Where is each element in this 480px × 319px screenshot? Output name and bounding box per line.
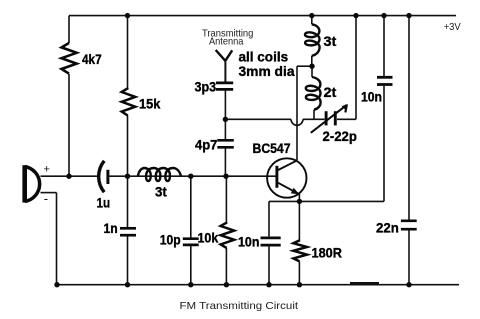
capacitor C5 4p7: [217, 140, 234, 147]
svg-text:180R: 180R: [312, 245, 342, 261]
wire collector column: [296, 66, 298, 160]
inductor L1 3t horizontal coil: [138, 168, 181, 181]
svg-text:2t: 2t: [324, 84, 337, 100]
svg-text:+3V: +3V: [444, 21, 461, 33]
resistor R1 4k7: [61, 43, 76, 74]
capacitor C4 3p3: [216, 83, 233, 90]
svg-text:BC547: BC547: [253, 140, 291, 156]
junction top rail / 10n: [381, 13, 386, 18]
wire tank line mid: [303, 118, 325, 120]
svg-text:3t: 3t: [324, 33, 337, 49]
svg-text:10p: 10p: [160, 232, 181, 248]
svg-text:3t: 3t: [155, 184, 167, 200]
resistor R3 10k: [221, 222, 235, 248]
wire antenna stem: [224, 60, 226, 81]
wire 15k column bottom: [127, 116, 129, 177]
svg-text:22n: 22n: [376, 220, 399, 236]
wire mic minus lead: [41, 192, 57, 194]
resistor R4 180R: [293, 240, 307, 261]
wire 10n left column bottom: [268, 247, 270, 285]
resistor R2 15k: [122, 88, 136, 116]
antenna: [216, 50, 233, 61]
wire 2t coil top lead: [311, 66, 313, 77]
svg-text:1n: 1n: [104, 220, 118, 236]
junction top rail / 3t coil: [309, 13, 314, 18]
svg-text:10n: 10n: [238, 234, 259, 250]
svg-text:10k: 10k: [198, 230, 219, 246]
svg-text:4p7: 4p7: [195, 137, 218, 153]
svg-text:10n: 10n: [361, 89, 382, 105]
wire 4k7 column top: [68, 16, 70, 43]
svg-text:3p3: 3p3: [195, 79, 217, 95]
svg-text:FM Transmitting Circuit: FM Transmitting Circuit: [180, 300, 299, 312]
junction 3p3 / 4p7 / tank line: [223, 117, 228, 122]
wire 4p7 to signal line: [224, 149, 226, 177]
svg-text:2-22p: 2-22p: [323, 128, 357, 144]
wire 3t coil top lead: [311, 16, 313, 25]
wire 2t coil bottom lead: [313, 110, 315, 120]
capacitor C2 1n: [120, 228, 136, 235]
wire top rail +3V: [69, 15, 456, 17]
junction ground rail / 10k: [224, 282, 229, 287]
wire 1n column top: [127, 176, 129, 227]
capacitor C3 10p: [183, 239, 199, 245]
svg-text:-: -: [44, 191, 48, 206]
wire 22n column bottom: [408, 230, 410, 284]
junction emitter / 180R / 10n: [297, 199, 302, 204]
wire x356 column: [355, 16, 357, 120]
wire 15k column top: [127, 16, 129, 88]
wire 3p3 to junction: [224, 91, 226, 140]
wire thick overlap segment on bottom rail: [350, 282, 379, 285]
junction 3t / 2t / collector: [309, 63, 314, 68]
wire tank line left: [225, 118, 291, 120]
svg-text:3mm dia: 3mm dia: [239, 63, 295, 79]
inductor L3 2t vertical coil: [306, 77, 321, 110]
wire collector to coil junction: [297, 65, 312, 67]
capacitor C8 22n: [401, 221, 417, 229]
capacitor C6 10n right: [377, 77, 393, 84]
wire 10n right column top: [383, 16, 385, 76]
wire emitter horizontal line: [269, 200, 384, 202]
junction ground rail / 180R: [297, 282, 302, 287]
inductor L2 3t vertical coil: [305, 24, 320, 56]
junction ground rail / mic: [54, 282, 59, 287]
capacitor C1 1u (electrolytic): [99, 161, 108, 192]
junction top rail / 22n: [406, 13, 411, 18]
wire emitter to 180R: [298, 201, 300, 240]
svg-text:1u: 1u: [97, 195, 111, 211]
wire 10p column bottom: [190, 246, 192, 285]
wire bottom rail ground: [57, 284, 459, 286]
wire 3t coil bottom lead: [311, 56, 313, 66]
variable capacitor 2-22p: [311, 105, 347, 133]
wire tank line right: [337, 118, 356, 120]
microphone MIC: [25, 165, 40, 202]
svg-text:Antenna: Antenna: [209, 36, 244, 48]
transistor Q1 BC547: [267, 158, 306, 197]
junction ground rail / 22n: [406, 282, 411, 287]
junction mic / 4k7: [66, 174, 71, 179]
junction signal line / 15k / 1n: [125, 174, 130, 179]
junction ground rail / 10p: [188, 282, 193, 287]
wire 10n right column bottom: [383, 86, 385, 202]
junction top rail / 15k: [125, 13, 130, 18]
junction signal line / 4p7 / 10k: [223, 174, 228, 179]
wire 10k column bottom: [225, 248, 227, 285]
junction signal line / 10p: [188, 174, 193, 179]
junction top rail / tank return: [353, 13, 358, 18]
wire hop under collector line: [291, 119, 303, 125]
wire 180R to ground: [298, 261, 300, 284]
svg-text:+: +: [44, 164, 50, 176]
wire 10n left column top: [268, 201, 270, 236]
wire 10p column top: [190, 176, 192, 237]
junction ground rail / 10n: [266, 282, 271, 287]
wire 22n column top: [408, 16, 410, 220]
svg-text:15k: 15k: [139, 96, 161, 112]
svg-text:4k7: 4k7: [82, 51, 102, 67]
wire 10k column top: [225, 176, 227, 222]
wire 1n column bottom: [127, 236, 129, 284]
wire signal line mic to 1u: [41, 175, 100, 177]
junction ground rail / 1n: [125, 282, 130, 287]
wire emitter lead: [298, 193, 300, 201]
wire 4k7 column bottom: [68, 74, 70, 176]
capacitor C7 10n left (emitter bypass): [261, 238, 281, 245]
wire signal line 1u to base: [109, 175, 276, 177]
wire mic minus column: [56, 193, 58, 285]
